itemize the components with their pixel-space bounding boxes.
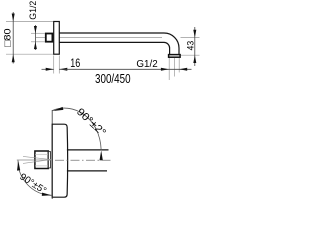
tolerance fan line upper (+5 deg) [23, 156, 51, 159]
arm tube (plan view, broken at right) [67, 149, 109, 151]
vertical centerline of outlet [173, 58, 175, 77]
dimension G1/2 inlet: extension lines [31, 32, 45, 34]
washer between nut and plate [48, 152, 50, 168]
dimension G1/2 inlet: top arrow [34, 26, 37, 33]
angle dimension 90+-2: arc [52, 108, 101, 150]
dimension G1/2 inlet: dimension line [34, 25, 36, 50]
angle dimension 90+-2: arrow at arm [100, 150, 103, 160]
arm axis centerline (dash-dot) [55, 159, 113, 161]
round escutcheon plate (edge view) [52, 124, 67, 197]
dimension square-80: extension lines [6, 21, 53, 23]
G1/2 outlet leader: arrow on dimension line [161, 68, 169, 71]
dimension square-80: dimension line [12, 12, 14, 64]
wall plate face line (with extensions for angle dims) [51, 110, 53, 199]
shower arm tube (horizontal run with 90 deg bend down) [59, 33, 179, 55]
tolerance fan line lower (-5 deg) [23, 160, 51, 164]
arm axis (left extension) [17, 159, 52, 161]
dimension 43: bottom arrow [193, 55, 196, 63]
angle dimension 90+-5: arrow at plate [42, 193, 52, 196]
svg-text:G1/2: G1/2 [136, 58, 157, 70]
extension line from bend outer edge [178, 58, 180, 72]
angle dimension 90+-2: arrow at plate [53, 107, 64, 111]
dimension square-80: bottom arrow [12, 54, 15, 62]
svg-text:16: 16 [70, 56, 80, 70]
centerline of arm (horizontal axis) [36, 37, 162, 39]
dimension 16: extension lines [53, 56, 55, 74]
dimension square-80: top arrow [12, 14, 15, 22]
dimension 43: dimension line [194, 27, 196, 66]
dimension 300/450: dimension line [59, 68, 191, 70]
dimension 300/450: right arrow [179, 68, 187, 71]
outlet collar at arm end [169, 55, 181, 58]
G1/2 inlet connector (square stub) [46, 34, 53, 42]
svg-text:43: 43 [185, 41, 196, 51]
hex nut facet line lower [35, 165, 48, 167]
dimension 16: right arrow [59, 68, 67, 71]
angle dimension 90+-5: arc [18, 160, 52, 195]
hex nut facet line upper [35, 153, 48, 155]
svg-text:300/450: 300/450 [95, 72, 131, 86]
dimension 43: top arrow [193, 30, 196, 38]
svg-text:□80: □80 [2, 29, 13, 48]
dimension 16 / 300-450: left dimension line and arrow [42, 68, 54, 70]
wall flange plate (side view) [54, 22, 60, 55]
mounting hex nut [35, 151, 48, 169]
dimension 43: bottom extension line [181, 54, 200, 56]
svg-text:G1/2: G1/2 [28, 1, 39, 20]
dimension G1/2 inlet: bottom arrow [34, 42, 37, 49]
extension line from outlet left edge [168, 58, 170, 80]
angle dimension 90+-5: arrow at axis [17, 161, 20, 171]
dimension 43: top extension line (axis) [181, 37, 200, 39]
